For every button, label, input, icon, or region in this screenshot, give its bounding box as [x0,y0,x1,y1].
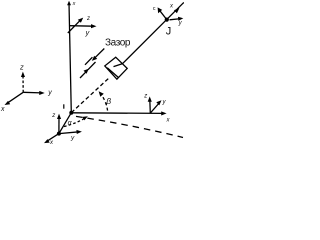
alpha arc arrowhead [82,116,88,120]
J up-left arrowhead [158,7,163,13]
leader 1 from text down-left [95,49,105,59]
right frame z axis [149,100,152,114]
svg-text:x: x [0,106,5,113]
frame A z diagonal axis [68,21,80,33]
long shallow dashed line to bottom right [76,116,183,137]
rod x-bar arrowhead near top right [174,8,180,13]
leader 2 from lower-left up-right [80,71,87,78]
dashed link line from origin 1 to block [71,78,109,113]
node J dot [165,18,169,22]
beta arc (dashed) [100,93,108,113]
svg-text:J: J [166,25,172,37]
leader 1 arrowhead [92,56,97,61]
far-left frame x axis [7,92,23,103]
lower frame y axis [59,132,79,134]
far-left frame y axis [23,91,41,94]
svg-text:z: z [143,94,147,100]
svg-text:c: c [153,6,156,12]
alpha arc (dashed) [64,118,86,127]
lower frame x arrowhead [44,139,50,143]
sleeve block outer square [105,57,127,79]
gap line 1 [85,57,92,65]
frame A y arrowhead [91,24,97,28]
far-left frame x arrowhead [5,101,11,105]
far-left frame z arrowhead [21,72,25,77]
svg-text:z: z [86,16,90,22]
leader 2 arrowhead [84,69,89,74]
svg-text:β: β [105,96,111,106]
lower frame x axis [47,134,59,142]
J up-left z arrow [160,10,167,19]
svg-text:y: y [47,90,52,97]
lower frame z axis [58,117,60,134]
svg-text:x: x [72,1,76,7]
beta arc arrowhead [99,91,104,97]
frame A y-axis (horizontal) [69,25,93,28]
solid line from origin 1 to lower frame origin [59,113,71,134]
lower frame z arrowhead [57,114,61,119]
lower frame origin dot [57,132,61,136]
svg-text:z: z [51,113,55,119]
label 1 [63,104,64,108]
J right arrowhead [178,17,183,21]
svg-text:Зазор: Зазор [105,38,131,49]
far-left frame y arrowhead [39,91,45,95]
far-left frame z axis (dashed) [22,75,24,92]
svg-text:z: z [19,63,24,72]
gap line 2 [88,62,96,70]
rod (x axis through J to block interior) [123,2,184,63]
frame A z arrowhead [78,18,83,23]
lower frame y arrowhead [76,130,82,134]
right frame y arrowhead [156,100,161,105]
vertical axis line (stand) from top arrow down to origin 1 [69,3,71,113]
origin 1 dot [69,111,73,115]
right frame z arrowhead [148,96,152,101]
block interior shallow line [114,64,123,67]
vertical axis top arrowhead [67,1,71,5]
J right y arrow [170,19,182,20]
main horizontal line from origin 1 to right arrow [71,112,164,115]
sleeve block inner wall line [107,68,118,78]
main horizontal arrowhead (x of right frame) [161,111,166,115]
right frame y diagonal [150,103,159,113]
